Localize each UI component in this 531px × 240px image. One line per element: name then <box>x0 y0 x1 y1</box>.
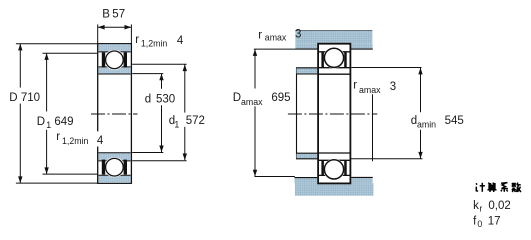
d1 extension top <box>132 63 186 65</box>
svg-text:amin: amin <box>417 120 436 130</box>
shaft shoulder face line <box>296 68 298 159</box>
svg-text:4: 4 <box>97 135 104 147</box>
svg-text:amax: amax <box>241 97 263 107</box>
svg-text:0,02: 0,02 <box>488 200 510 212</box>
svg-text:695: 695 <box>271 92 290 104</box>
svg-text:k: k <box>473 200 479 212</box>
svg-text:r: r <box>479 203 482 213</box>
svg-text:17: 17 <box>488 216 501 228</box>
svg-text:649: 649 <box>54 116 73 128</box>
groove top (white clearance) <box>104 50 124 70</box>
ball bottom <box>106 158 124 176</box>
D1 extension bottom <box>43 173 98 175</box>
svg-text:57: 57 <box>112 8 125 20</box>
cage bars top right fig <box>321 53 324 68</box>
shaft shoulder strip bottom <box>297 153 318 159</box>
ramax inner leader line <box>372 94 374 161</box>
housing top left shoulder <box>295 44 317 49</box>
svg-text:545: 545 <box>445 115 464 127</box>
Da dimension line <box>254 49 256 88</box>
计 <box>476 183 477 184</box>
damin extension bottom <box>351 158 423 160</box>
damin extension top <box>351 67 421 69</box>
right inner ring band edges top <box>318 67 350 69</box>
chinese heading 计算系数 <box>476 183 521 192</box>
svg-text:4: 4 <box>177 35 184 47</box>
系 <box>501 183 508 192</box>
right bearing outline box <box>318 44 350 184</box>
groove bottom right fig <box>323 159 344 180</box>
d extension top <box>132 73 163 75</box>
d dimension line <box>161 74 163 89</box>
svg-text:1: 1 <box>174 119 179 129</box>
B dimension line <box>98 26 132 28</box>
d extension bottom <box>132 152 163 154</box>
svg-text:amax: amax <box>359 85 381 95</box>
housing bottom slab <box>295 183 374 195</box>
D extension bottom <box>16 182 98 184</box>
svg-text:r: r <box>135 34 139 46</box>
centerline left figure <box>91 113 138 115</box>
label r12min 4 bottom left <box>96 131 105 146</box>
svg-text:D: D <box>9 92 17 104</box>
svg-text:3: 3 <box>390 81 396 93</box>
cage bars bottom right fig <box>321 161 324 176</box>
outer ring bottom band <box>99 175 131 183</box>
svg-text:530: 530 <box>156 93 175 105</box>
right inner ring band edges bottom <box>318 152 350 154</box>
svg-text:r: r <box>258 29 262 41</box>
inner ring bottom band <box>99 153 131 161</box>
D dimension line <box>19 44 21 88</box>
ball top right fig <box>324 48 343 67</box>
housing bottom left shoulder <box>295 178 318 184</box>
cage bars top <box>102 52 105 67</box>
centerline right figure <box>288 113 377 115</box>
right outer ring band top edge bottom <box>318 174 350 176</box>
svg-text:r: r <box>56 131 60 143</box>
housing top right shoulder <box>350 44 372 49</box>
svg-text:1,2min: 1,2min <box>62 136 89 146</box>
housing bottom right shoulder <box>351 177 372 183</box>
svg-text:1: 1 <box>46 120 51 130</box>
right outer ring band bottom edge top <box>318 51 350 53</box>
inner ring top band <box>99 67 131 74</box>
ball top <box>106 51 124 69</box>
housing top slab <box>295 30 372 44</box>
damin dimension line <box>420 68 422 112</box>
svg-text:D: D <box>233 92 241 104</box>
Da extension top <box>254 48 296 50</box>
svg-text:710: 710 <box>21 92 40 104</box>
算 <box>488 183 497 192</box>
groove bottom (white clearance) <box>104 157 124 177</box>
D1 dimension line <box>46 53 48 111</box>
groove top right fig <box>323 47 344 68</box>
svg-text:3: 3 <box>295 28 301 40</box>
ball bottom right fig <box>324 160 343 179</box>
数 <box>512 183 521 192</box>
svg-text:0: 0 <box>477 219 482 229</box>
svg-text:1,2min: 1,2min <box>141 38 168 48</box>
d1 extension bottom <box>132 160 186 162</box>
svg-text:r: r <box>353 80 357 92</box>
B dimension extension lines <box>97 24 99 43</box>
shaft shoulder strip top <box>297 68 318 74</box>
d1 dimension line <box>184 65 186 113</box>
Da extension bottom <box>254 176 295 178</box>
D1 extension top <box>43 52 98 54</box>
cage bars bottom <box>102 160 105 175</box>
svg-text:d: d <box>145 93 151 105</box>
svg-text:amax: amax <box>265 32 287 42</box>
svg-text:B: B <box>102 8 110 20</box>
svg-text:D: D <box>37 116 45 128</box>
bearing outline box <box>98 44 132 184</box>
svg-text:572: 572 <box>186 115 205 127</box>
outer ring top band <box>99 44 131 52</box>
D extension top <box>16 43 98 45</box>
